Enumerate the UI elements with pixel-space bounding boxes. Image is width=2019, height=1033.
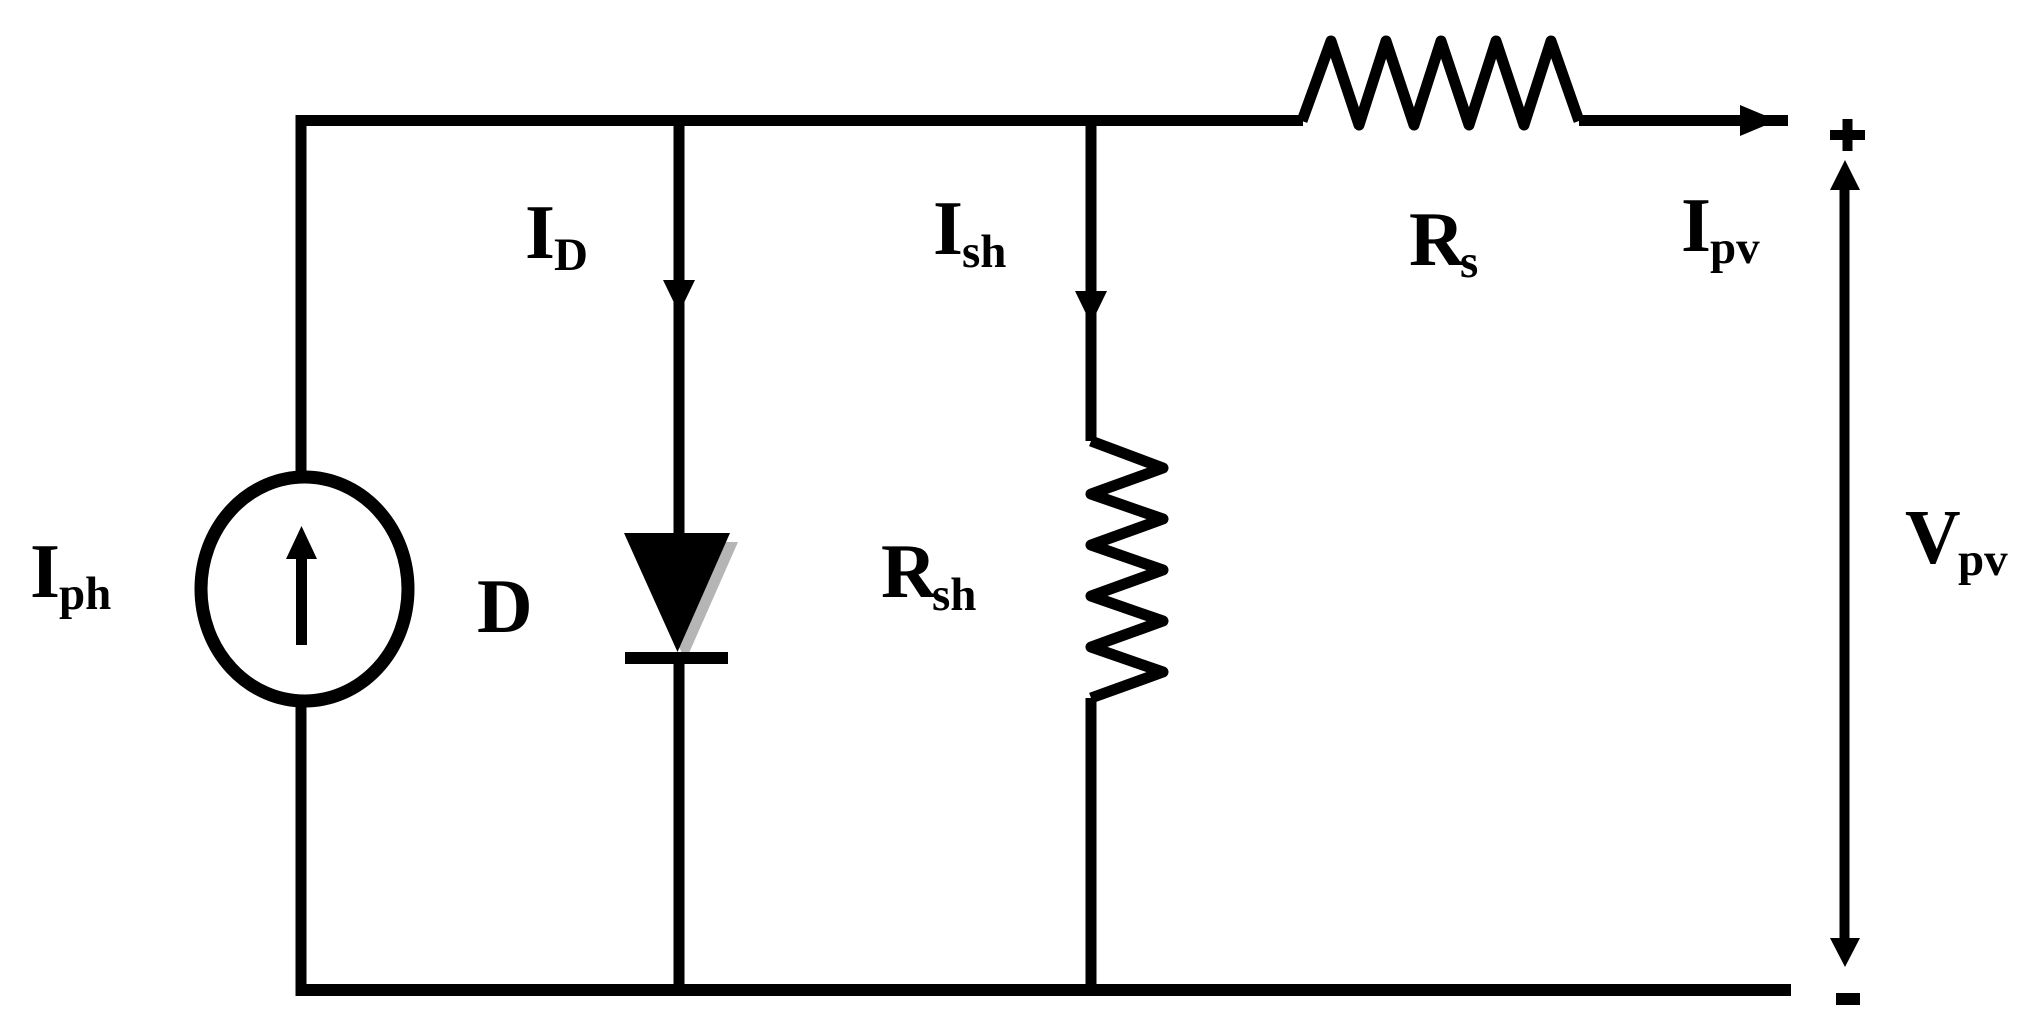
wire: left branch top (corner to current source) — [301, 121, 1303, 472]
diode D cathode bar — [625, 652, 728, 664]
svg-text:I: I — [525, 189, 555, 275]
label D — [477, 563, 533, 649]
label I_D — [525, 189, 588, 281]
svg-text:R: R — [1409, 196, 1466, 282]
svg-text:D: D — [477, 563, 533, 649]
wire: output with Ipv arrow — [1579, 105, 1788, 136]
svg-text:I: I — [1681, 182, 1711, 268]
wire: bottom bus — [296, 984, 1792, 996]
diode D shadow — [632, 542, 738, 661]
wire: diode branch lower — [674, 658, 685, 990]
minus terminal — [1836, 993, 1860, 1005]
current source U1 (Iph) circle — [201, 477, 408, 701]
svg-text:I: I — [933, 185, 963, 271]
wire: shunt branch upper — [1086, 126, 1097, 441]
arrow I_sh (down) — [1075, 291, 1107, 324]
svg-text:I: I — [30, 528, 60, 614]
label V_pv — [1905, 494, 2008, 586]
label I_sh — [933, 185, 1006, 278]
svg-text:R: R — [881, 528, 938, 614]
label I_ph — [30, 528, 111, 620]
wire: diode branch upper — [674, 126, 685, 545]
label R_s — [1409, 196, 1478, 288]
svg-text:sh: sh — [932, 569, 976, 621]
plus terminal — [1830, 119, 1865, 151]
current source arrow (up) — [286, 526, 317, 645]
svg-text:pv: pv — [1710, 222, 1760, 274]
resistor Rsh zigzag — [1091, 441, 1163, 698]
svg-text:s: s — [1460, 236, 1478, 288]
resistor Rs zigzag — [1302, 41, 1579, 125]
arrow I_D (down) — [663, 280, 695, 313]
diode D triangle — [624, 533, 730, 652]
svg-text:V: V — [1905, 494, 1961, 580]
Vpv double arrow — [1830, 160, 1860, 967]
wire: left branch bottom (current source to bottom bus) — [296, 706, 307, 990]
svg-text:ph: ph — [59, 568, 111, 620]
svg-text:sh: sh — [962, 226, 1006, 278]
wire: shunt branch lower — [1086, 698, 1097, 990]
label I_pv — [1681, 182, 1760, 274]
label R_sh — [881, 528, 976, 621]
svg-text:D: D — [554, 229, 588, 281]
svg-text:pv: pv — [1958, 534, 2008, 586]
